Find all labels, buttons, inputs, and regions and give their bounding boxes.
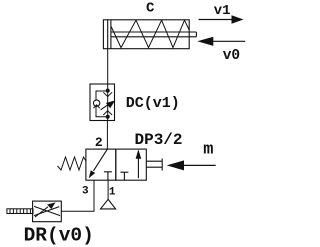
DC(v1) throttle adjustment arrow xyxy=(101,100,116,109)
DP3/2 manual actuator xyxy=(146,159,162,171)
DP3/2 right position flow path 1 to 2 arrow xyxy=(136,149,142,178)
cylinder C piston rod xyxy=(111,32,196,37)
DC(v1) check valve seat xyxy=(93,105,99,108)
svg-text:1: 1 xyxy=(109,187,116,199)
DC(v1) throttle chevrons xyxy=(103,92,112,115)
DP3/2 return spring xyxy=(58,157,86,170)
silencer (exhaust muffler) xyxy=(7,209,33,214)
wire valve port 1 to pressure source xyxy=(107,180,109,199)
DP3/2 left position flow path 2 to 3 arrow xyxy=(89,149,108,178)
wire DC(v1) to valve port 2 xyxy=(106,121,108,150)
DC(v1) main flow line xyxy=(107,84,109,121)
node junction bottom of DC(v1) xyxy=(106,115,110,119)
flow control valve DC(v1) body xyxy=(90,84,115,121)
arrow v0 (retract direction) xyxy=(197,37,245,46)
svg-text:DP3/2: DP3/2 xyxy=(135,131,183,149)
svg-text:v0: v0 xyxy=(223,48,240,64)
DC(v1) check valve ball xyxy=(93,100,99,106)
DR(v0) throttle chevrons xyxy=(34,206,60,215)
DR(v0) throttle adjustment arrow xyxy=(35,202,56,217)
DP3/2 left position blocked port 1 xyxy=(104,172,112,180)
cylinder C return spring xyxy=(111,20,189,47)
cylinder C body xyxy=(103,20,189,49)
valve DP3/2 body left position square xyxy=(86,149,116,180)
svg-text:2: 2 xyxy=(95,135,103,150)
wire cylinder port to DC(v1) xyxy=(107,49,109,84)
svg-text:DR(v0): DR(v0) xyxy=(24,225,94,247)
valve DP3/2 body right position square xyxy=(116,149,147,180)
node junction top of DC(v1) xyxy=(106,89,110,93)
throttle valve DR(v0) body xyxy=(33,201,62,222)
arrow m (manual actuation) xyxy=(167,160,216,170)
svg-text:DC(v1): DC(v1) xyxy=(126,95,180,112)
wire valve port 3 to DR(v0) xyxy=(61,180,94,211)
cylinder C piston xyxy=(108,20,111,49)
svg-text:3: 3 xyxy=(82,186,89,198)
DC(v1) check valve bypass wire xyxy=(96,91,108,117)
arrow v1 (extend direction) xyxy=(199,15,244,24)
svg-text:m: m xyxy=(203,141,213,160)
svg-text:v1: v1 xyxy=(214,3,231,19)
DP3/2 right position blocked port 3 xyxy=(120,172,128,180)
svg-text:C: C xyxy=(146,1,155,17)
pressure source triangle xyxy=(101,199,116,209)
